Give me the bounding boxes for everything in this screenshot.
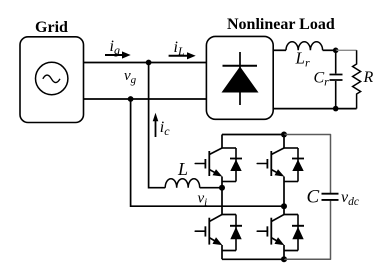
label Nonlinear Load — [227, 16, 335, 33]
node Lr output top — [333, 48, 339, 54]
wire L to vi node — [200, 187, 222, 189]
svg-text:Lr: Lr — [295, 49, 310, 70]
svg-text:vdc: vdc — [341, 189, 359, 208]
svg-text:vg: vg — [124, 68, 137, 86]
wire node to R top — [336, 49, 357, 51]
right leg wires — [283, 135, 285, 260]
resistor R — [353, 50, 361, 108]
node load bottom — [333, 106, 339, 112]
label ig — [110, 38, 120, 57]
capacitor C plates — [322, 194, 339, 200]
wire Lr to node — [323, 49, 336, 51]
svg-text:Nonlinear Load: Nonlinear Load — [227, 16, 335, 33]
inductor L — [165, 179, 200, 188]
label Grid — [35, 19, 68, 36]
wire grid bottom to load (vg rail) — [84, 98, 207, 100]
wire vg down and to right leg — [131, 99, 284, 206]
arrow ig — [105, 51, 131, 58]
svg-text:Cr: Cr — [314, 70, 330, 89]
node bottom rail — [281, 256, 287, 262]
dc bus gray loop bottom — [284, 201, 331, 259]
node on vg rail — [128, 96, 134, 102]
label Lr — [295, 49, 310, 70]
wire load to Lr — [273, 49, 286, 51]
left leg wires — [221, 135, 223, 260]
node vi — [219, 185, 225, 191]
wire ic vertical — [149, 63, 166, 188]
label ic — [160, 119, 170, 138]
label vg — [124, 68, 137, 86]
arrow ic — [153, 113, 159, 137]
svg-text:Grid: Grid — [35, 19, 68, 36]
nonlinear load box — [206, 36, 273, 119]
inductor Lr — [286, 42, 323, 51]
capacitor Cr plates — [330, 75, 343, 81]
transistor Q1 with diode D1 — [195, 148, 242, 182]
svg-text:C: C — [307, 187, 320, 208]
label vi — [198, 190, 208, 208]
label iL — [174, 39, 185, 58]
node right leg mid — [281, 203, 287, 209]
grid source box — [20, 37, 84, 123]
node on ig rail — [146, 60, 152, 66]
AC source symbol — [36, 62, 68, 94]
label C — [307, 187, 320, 208]
svg-text:L: L — [177, 159, 188, 179]
label R — [363, 69, 374, 86]
svg-text:R: R — [363, 69, 374, 86]
wire grid top to load (ig rail) — [84, 62, 207, 64]
rectifier diode — [222, 52, 259, 105]
transistor Q4 with diode D4 — [257, 215, 304, 251]
node top rail — [281, 132, 287, 138]
arrow iL — [169, 52, 196, 59]
transistor Q3 with diode D3 — [195, 215, 242, 251]
transistor Q2 with diode D2 — [257, 148, 304, 182]
label L — [177, 159, 188, 179]
label vdc — [341, 189, 359, 208]
label Cr — [314, 70, 330, 89]
wire load bottom to R bottom — [273, 108, 356, 110]
bottom rail black — [222, 258, 284, 260]
svg-text:ic: ic — [160, 119, 170, 138]
top rail black — [222, 134, 284, 136]
capacitor Cr wires — [335, 50, 337, 108]
dc bus gray loop top — [284, 135, 331, 194]
